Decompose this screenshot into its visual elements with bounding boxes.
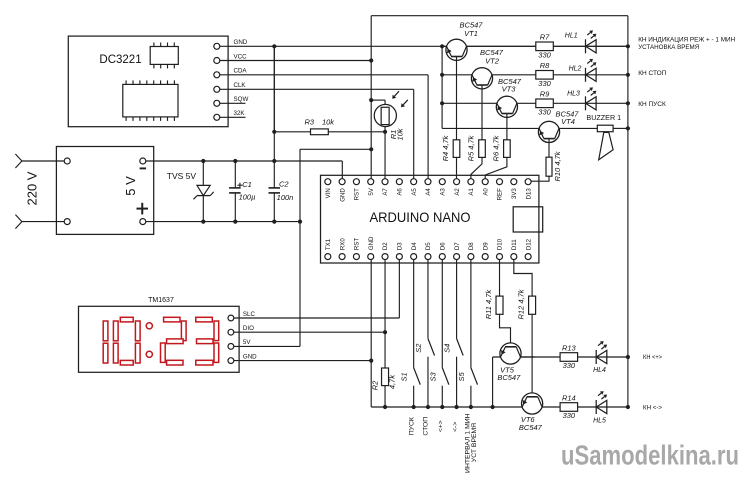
svg-text:330: 330 [538, 108, 551, 117]
svg-text:<->: <-> [452, 422, 459, 432]
svg-text:КН СТОП: КН СТОП [638, 70, 666, 77]
svg-text:A6: A6 [397, 188, 404, 196]
svg-text:D8: D8 [468, 242, 475, 250]
svg-text:СТОП: СТОП [423, 417, 430, 436]
svg-text:D12: D12 [525, 238, 532, 250]
svg-text:BC547: BC547 [519, 423, 543, 432]
svg-text:A7: A7 [382, 188, 389, 196]
svg-text:R10 4,7k: R10 4,7k [553, 150, 562, 181]
svg-text:D5: D5 [425, 242, 432, 250]
svg-text:R3: R3 [305, 117, 315, 126]
svg-text:SLC: SLC [243, 311, 256, 318]
svg-text:<+>: <+> [437, 420, 444, 432]
svg-text:330: 330 [538, 51, 551, 60]
svg-text:HL1: HL1 [565, 33, 578, 40]
svg-text:УСТАНОВКА ВРЕМЯ: УСТАНОВКА ВРЕМЯ [638, 44, 699, 51]
svg-text:КН <+>: КН <+> [643, 354, 662, 361]
svg-text:CDA: CDA [234, 68, 248, 75]
svg-text:VT1: VT1 [464, 29, 478, 38]
svg-text:uSamodelkina.ru: uSamodelkina.ru [561, 440, 739, 471]
svg-text:GND: GND [339, 188, 346, 202]
svg-text:КН ПУСК: КН ПУСК [638, 101, 666, 108]
svg-text:VIN: VIN [325, 188, 332, 198]
svg-text:TX1: TX1 [325, 238, 332, 250]
svg-text:HL4: HL4 [593, 367, 606, 374]
svg-text:A1: A1 [468, 188, 475, 196]
svg-text:A3: A3 [439, 188, 446, 196]
svg-text:D4: D4 [411, 242, 418, 250]
svg-text:S4: S4 [443, 344, 452, 353]
svg-text:VCC: VCC [234, 53, 248, 60]
svg-text:КН <->: КН <-> [643, 405, 662, 412]
svg-text:5V: 5V [368, 187, 375, 195]
svg-text:A5: A5 [411, 188, 418, 196]
svg-text:R14: R14 [562, 393, 576, 402]
svg-text:RST: RST [354, 188, 361, 200]
svg-text:HL2: HL2 [569, 65, 582, 72]
svg-text:REF: REF [497, 188, 504, 200]
svg-text:VT4: VT4 [561, 117, 575, 126]
svg-text:S5: S5 [457, 371, 466, 381]
svg-text:GND: GND [243, 353, 257, 360]
svg-text:BC547: BC547 [497, 373, 521, 382]
svg-text:TVS 5V: TVS 5V [167, 171, 197, 181]
svg-text:DC3221: DC3221 [99, 54, 141, 66]
svg-text:R8: R8 [540, 61, 550, 70]
svg-text:CLK: CLK [234, 82, 247, 89]
svg-text:R13: R13 [562, 343, 577, 352]
svg-text:3V3: 3V3 [511, 188, 518, 199]
svg-text:D6: D6 [439, 242, 446, 250]
svg-text:R11 4,7k: R11 4,7k [484, 289, 493, 320]
svg-text:32K: 32K [234, 110, 246, 117]
svg-text:100n: 100n [277, 193, 294, 202]
svg-text:100µ: 100µ [239, 192, 256, 201]
svg-text:5V: 5V [243, 339, 251, 346]
svg-text:GND: GND [234, 39, 248, 46]
svg-text:S2: S2 [414, 343, 423, 353]
svg-text:ПУСК: ПУСК [408, 417, 415, 435]
svg-text:GND: GND [368, 236, 375, 250]
svg-text:ARDUINO NANO: ARDUINO NANO [370, 209, 471, 225]
svg-text:10k: 10k [395, 127, 404, 140]
svg-text:HL5: HL5 [593, 418, 606, 425]
svg-text:VT2: VT2 [485, 57, 500, 66]
svg-text:КН ИНДИКАЦИЯ РЕЖ + - 1 МИН: КН ИНДИКАЦИЯ РЕЖ + - 1 МИН [638, 36, 735, 43]
svg-text:SQW: SQW [234, 96, 249, 103]
svg-text:A0: A0 [482, 188, 489, 196]
svg-text:D10: D10 [497, 238, 504, 250]
svg-text:S1: S1 [400, 372, 409, 381]
svg-text:C2: C2 [279, 179, 289, 188]
svg-text:D13: D13 [525, 188, 532, 200]
svg-text:R4 4,7k: R4 4,7k [441, 134, 450, 161]
svg-text:A2: A2 [454, 188, 461, 196]
svg-text:DIO: DIO [243, 325, 254, 332]
svg-text:R5 4,7k: R5 4,7k [467, 134, 476, 161]
svg-text:R9: R9 [540, 90, 550, 99]
svg-text:D3: D3 [397, 242, 404, 250]
svg-text:10k: 10k [322, 117, 335, 126]
svg-text:330: 330 [538, 79, 551, 88]
svg-text:D11: D11 [511, 239, 518, 250]
svg-text:R12 4,7k: R12 4,7k [517, 288, 526, 319]
svg-text:D2: D2 [382, 242, 389, 250]
svg-text:S3: S3 [428, 371, 437, 381]
svg-text:УСТ ВРЕМЯ: УСТ ВРЕМЯ [471, 423, 478, 462]
svg-text:D7: D7 [454, 242, 461, 250]
svg-text:RX0: RX0 [339, 238, 346, 250]
svg-text:BUZZER 1: BUZZER 1 [586, 113, 621, 122]
svg-text:R2: R2 [370, 380, 379, 390]
svg-text:HL3: HL3 [567, 91, 580, 98]
svg-text:220 V: 220 V [25, 171, 40, 205]
svg-text:D9: D9 [482, 242, 489, 250]
svg-text:RST: RST [354, 238, 361, 250]
svg-text:VT3: VT3 [502, 84, 517, 93]
svg-text:330: 330 [563, 411, 576, 420]
svg-text:A4: A4 [425, 188, 432, 196]
svg-text:R7: R7 [540, 33, 550, 42]
svg-text:TM1637: TM1637 [148, 297, 174, 304]
svg-text:R6 4,7k: R6 4,7k [492, 134, 501, 161]
svg-text:5 V: 5 V [123, 176, 138, 196]
svg-text:4,7k: 4,7k [387, 374, 396, 389]
svg-text:330: 330 [563, 361, 576, 370]
svg-text:C1: C1 [242, 180, 252, 189]
